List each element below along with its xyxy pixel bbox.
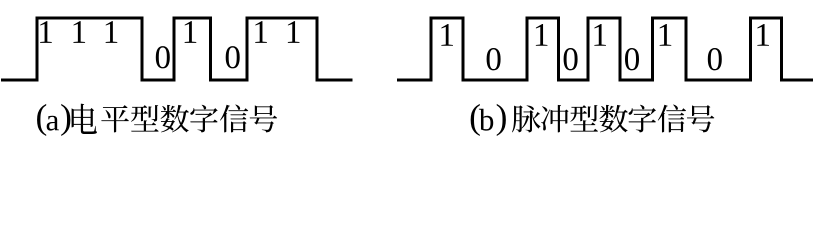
label digit 0 right gap1 [487, 48, 501, 70]
wire left waveform (a) level-type signal [1, 18, 353, 80]
caption char 电 [72, 104, 97, 134]
label digit 0 right gap2 [564, 48, 578, 70]
label digit 1 left bit2 [73, 21, 85, 43]
label digit 0 left bit4 [156, 46, 170, 68]
label digit 1 left bit7 [255, 21, 267, 43]
label digit 1 right pulse2 [536, 24, 548, 46]
caption char 型 [131, 105, 159, 132]
caption (a) open paren [37, 104, 46, 136]
caption (a) letter a [47, 116, 59, 131]
label digit 1 right pulse5 [757, 24, 769, 46]
label digit 1 left bit5 [185, 21, 197, 43]
caption (b) letter b [479, 109, 493, 131]
label digit 0 right gap4 [708, 48, 722, 70]
caption char 冲 [541, 105, 568, 132]
label digit 1 left bit3 [106, 21, 118, 43]
caption char 字 [629, 105, 656, 133]
caption char 数 [161, 105, 189, 133]
caption char 平 [101, 105, 129, 132]
caption char 型 [570, 105, 598, 132]
caption char 字 [190, 105, 217, 133]
label digit 0 left bit6 [226, 46, 240, 68]
caption char 数 [600, 105, 628, 133]
caption char 信 [658, 105, 686, 133]
caption char 号 [250, 105, 277, 132]
label digit 1 left bit1 [40, 21, 52, 43]
caption char 信 [220, 105, 248, 133]
caption (b) open paren [471, 104, 480, 136]
label digit 1 left bit8 [288, 21, 300, 43]
caption char 号 [687, 105, 714, 132]
caption (a) close paren [61, 104, 70, 136]
label digit 1 right pulse1 [441, 24, 453, 46]
caption (b) close paren [497, 104, 506, 136]
caption char 脉 [512, 105, 541, 132]
label digit 1 right pulse3 [594, 24, 606, 46]
wire right waveform (b) pulse-type signal [397, 18, 813, 80]
label digit 0 right gap3 [625, 48, 639, 70]
label digit 1 right pulse4 [660, 24, 672, 46]
